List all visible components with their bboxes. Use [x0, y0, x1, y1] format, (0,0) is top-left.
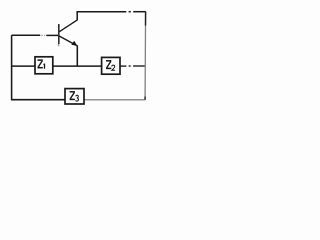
wire: bottom rail right segment (Z3 to right rail, faded) [84, 99, 146, 101]
transistor Q1: emitter stroke [59, 36, 77, 46]
impedance Z2: label Z [106, 61, 111, 69]
impedance Z3: box [65, 89, 84, 104]
impedance Z1: subscript 1 [44, 64, 45, 69]
wire: left vertical rail [11, 35, 13, 100]
wire: right vertical rail faded middle segment [144, 26, 146, 97]
wire: right vertical rail bottom corner segment [144, 97, 146, 100]
wire: base lead faded dots [41, 34, 45, 36]
transistor Q1: emitter arrowhead [71, 41, 77, 46]
wire: collector riser and top rail (with scan breaks) [77, 12, 146, 21]
wire: middle row left segment (left rail to Z1) [12, 65, 36, 67]
impedance Z3: subscript 3 [76, 95, 79, 101]
wire: bottom rail left segment (to Z3) [11, 99, 65, 101]
impedance Z1: box [35, 57, 53, 74]
transistor Q1: collector stroke [59, 20, 77, 32]
transistor Q1: base bar [58, 24, 60, 44]
node: emitter junction drop wire to middle row [76, 45, 78, 66]
wire: base lead from left rail to transistor base [12, 34, 59, 36]
wire: middle row right segment (Z2 to right rail, with scan breaks) [120, 65, 145, 67]
impedance Z2: subscript 2 [112, 65, 115, 70]
transistor Q1: base bar faded lower tip [58, 44, 60, 46]
wire: middle row centre segment (Z1 to Z2 through emitter node) [53, 65, 102, 67]
impedance Z1: label Z [38, 60, 43, 68]
impedance Z3: label Z [70, 92, 75, 100]
wire: right vertical rail upper dark segment [145, 12, 147, 26]
impedance Z2: box [102, 57, 120, 74]
